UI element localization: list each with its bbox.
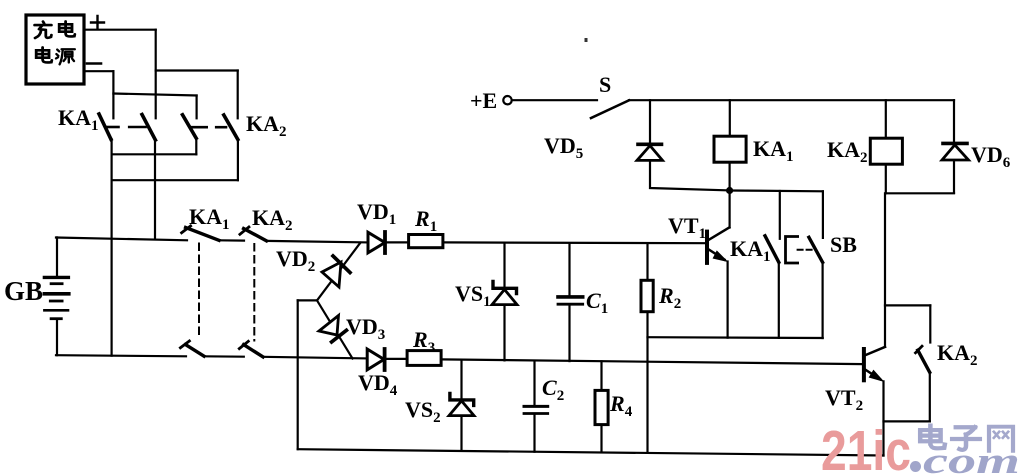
wire VS2 top lead bbox=[460, 360, 462, 399]
wire R2 top lead bbox=[646, 243, 648, 280]
transistor VT2 base bar bbox=[862, 349, 866, 380]
wire SW2 bottom vertical bbox=[154, 140, 156, 238]
wire horizontal A joining SW1-SW3 bottoms bbox=[112, 153, 197, 155]
wire R4 bottom lead bbox=[600, 425, 602, 453]
wire VD6 bottom horizontal bbox=[886, 192, 954, 194]
wire KA2 contact upper vertical bbox=[929, 305, 931, 342]
wire GB bottom lead bbox=[56, 320, 58, 355]
contact tick SW3 bbox=[191, 126, 207, 129]
wire VT1 collector diagonal bbox=[709, 228, 730, 240]
terminal +E circle bbox=[503, 96, 511, 104]
resistor R3 bbox=[407, 351, 441, 366]
relay contact KA2 (right) tick and blade bbox=[916, 346, 923, 353]
wire SW2 top vertical bbox=[155, 30, 157, 119]
zener VS2 bbox=[449, 401, 474, 416]
capacitor C2 bbox=[524, 405, 548, 408]
wire KA2 coil top lead bbox=[885, 100, 887, 138]
wire KA1 coil top lead bbox=[729, 100, 731, 136]
switch S blade bbox=[591, 100, 629, 118]
wire SW1 top vertical bbox=[112, 71, 114, 118]
wire rail3 R3 to VT2 base bbox=[441, 359, 862, 364]
wire SW3 top vertical bbox=[196, 96, 198, 119]
diode VD5 bbox=[637, 146, 663, 161]
wire VT1 emitter vertical bbox=[726, 262, 728, 338]
wire bottom rail bbox=[298, 449, 884, 455]
wire rail3 VD4 to R3 bbox=[385, 358, 407, 360]
relay contact KA2 row2 lower: tick and blade bbox=[239, 341, 248, 348]
wire C2 top lead bbox=[533, 361, 535, 406]
linkage dashed KA2 row2 bbox=[253, 244, 255, 341]
wire VS1 bottom lead bbox=[503, 305, 505, 361]
wire VD2 diagonal bbox=[317, 243, 360, 301]
wire rail2 row2 KA2 to VD1 bbox=[266, 241, 368, 243]
wire rail3 battery- to row2 lower KA1 bbox=[56, 355, 186, 356]
relay contact KA1 row2 lower: tick and blade bbox=[180, 341, 189, 348]
wire KA1 contact lower vertical bbox=[778, 262, 780, 338]
transistor VT1 base bar bbox=[705, 232, 709, 263]
wire KA2 coil bottom lead bbox=[885, 164, 887, 193]
wire plus-branch to SW4 top bbox=[156, 69, 238, 71]
capacitor C1 bbox=[558, 295, 583, 299]
wire rail2 battery+ to row2 KA1 contact bbox=[56, 238, 187, 241]
diode VD1 bbox=[368, 232, 385, 253]
wire SB upper vertical bbox=[822, 191, 824, 238]
contact tick SW1 bbox=[107, 126, 119, 129]
wire SW4 top vertical bbox=[237, 71, 239, 119]
wire VS2 bottom lead bbox=[460, 416, 462, 451]
wire rail1 S to right corner bbox=[629, 99, 954, 101]
battery GB plates bbox=[44, 277, 68, 318]
wire SW4 bottom vertical bbox=[237, 139, 239, 180]
wire left vertical from diode vertex down bbox=[297, 300, 299, 449]
wire VT2 emitter vertical bbox=[882, 381, 884, 455]
wire + from charger to SW2 top bbox=[84, 29, 156, 31]
relay contact KA1 row2 upper: tick and blade bbox=[182, 226, 191, 233]
svg-text:GB: GB bbox=[4, 276, 43, 306]
wire SB lower vertical bbox=[821, 262, 823, 338]
zener VS1 bbox=[492, 290, 517, 305]
contact tick SW4 bbox=[216, 126, 226, 129]
watermark dot of .com bbox=[910, 461, 921, 472]
wire rail2 between row2 contacts bbox=[219, 239, 244, 242]
wire VD5 top lead bbox=[649, 100, 651, 143]
relay contact KA2 row2 upper: tick and blade bbox=[240, 227, 249, 234]
transistor VT1 emitter with arrow bbox=[709, 250, 725, 260]
resistor R2 bbox=[641, 280, 653, 311]
wire KA2 contact branch horizontal bbox=[885, 304, 930, 306]
wire rail2 VD1 to R1 bbox=[385, 241, 409, 243]
push button SB dashed link bbox=[798, 249, 812, 251]
wire C1 bottom lead bbox=[568, 305, 570, 361]
wire R2 bottom lead down to bottom rail bbox=[646, 312, 648, 453]
svg-text:S: S bbox=[599, 72, 611, 97]
wire horizontal B joining SW4 bottom bbox=[112, 179, 238, 181]
relay coil KA1 bbox=[714, 136, 746, 162]
wire KA2 contact lower vertical bbox=[929, 372, 931, 421]
wire VD6 top lead bbox=[953, 100, 955, 142]
wire - from charger to SW1 top bbox=[84, 70, 113, 72]
wire C2 bottom lead bbox=[533, 415, 535, 452]
wire VD6 bottom lead bbox=[953, 160, 955, 193]
wire SW1 bottom long vertical bbox=[110, 139, 112, 355]
relay contact KA2 row1 blade bbox=[183, 115, 197, 138]
wire SW3 bottom vertical bbox=[195, 138, 197, 154]
svg-text:SB: SB bbox=[830, 232, 857, 257]
wire VT2 collector vertical bbox=[884, 193, 886, 347]
relay contact KA1 row1 second blade bbox=[142, 115, 155, 141]
hanzi 电 (2nd row) in charger box bbox=[36, 47, 52, 62]
relay contact KA1 row1 blade bbox=[99, 114, 111, 139]
wire KA1 coil bottom lead through node A to VT1 collector bbox=[728, 162, 730, 227]
diode VD2 bbox=[322, 262, 341, 287]
svg-text:com: com bbox=[923, 441, 1020, 474]
wire rail1 +E to switch S bbox=[512, 99, 597, 101]
hanzi 源 in charger box bbox=[56, 49, 75, 64]
relay contact KA1 (hold) blade bbox=[765, 236, 779, 262]
transistor VT2 emitter with arrow bbox=[866, 370, 880, 379]
resistor R4 bbox=[595, 390, 608, 424]
wire VD5 bottom lead and elbow to node A bbox=[650, 160, 730, 190]
wire node A horizontal to SB bbox=[730, 189, 823, 192]
wire rail2 R1 to VT1 base bbox=[443, 241, 705, 244]
svg-text:21ic: 21ic bbox=[821, 419, 911, 474]
wire minus-branch to SW3 top bbox=[113, 94, 196, 96]
wire KA1 contact upper vertical bbox=[779, 191, 781, 239]
plus terminal mark bbox=[91, 16, 104, 29]
wire C1 top lead bbox=[568, 243, 570, 295]
watermark hanzi 电 bbox=[920, 426, 945, 449]
watermark hanzi 子 bbox=[952, 427, 980, 450]
linkage dashed KA1 row2 bbox=[198, 244, 200, 340]
watermark hanzi 网 bbox=[989, 427, 1013, 451]
wire horizontal emitter bus y337 bbox=[648, 336, 823, 339]
diode VD6 bbox=[942, 145, 969, 160]
wire VT2 collector diagonal bbox=[866, 347, 885, 355]
wire vertex connector bbox=[298, 299, 317, 301]
push button SB blade bbox=[809, 237, 823, 262]
minus terminal mark bbox=[87, 62, 101, 65]
hanzi 充 in charger box bbox=[35, 22, 52, 38]
charger box 充电电源 bbox=[26, 15, 84, 84]
push button SB bracket bbox=[786, 237, 798, 264]
wire GB top lead bbox=[56, 237, 58, 276]
wire rail3 between row2 lower contacts bbox=[204, 355, 244, 358]
resistor R1 bbox=[409, 235, 443, 248]
wire KA2 contact bottom horizontal bbox=[884, 420, 930, 422]
wire R4 top lead bbox=[600, 361, 602, 390]
scan speck artifact bbox=[585, 38, 588, 42]
contact tick SW2 bbox=[129, 126, 145, 129]
svg-text:+E: +E bbox=[470, 88, 497, 113]
hanzi 电 in charger box bbox=[59, 21, 75, 36]
wire VS1 top lead bbox=[503, 243, 505, 287]
wire VD3 diagonal bbox=[317, 300, 353, 358]
relay coil KA2 bbox=[870, 138, 902, 164]
node A junction dot bbox=[726, 187, 733, 194]
relay contact KA2 row1 second blade bbox=[224, 115, 238, 139]
diode VD3 bbox=[319, 316, 339, 336]
diode VD4 bbox=[367, 349, 384, 370]
wire rail3 row2 lower KA2 to VD4 bbox=[263, 357, 367, 359]
